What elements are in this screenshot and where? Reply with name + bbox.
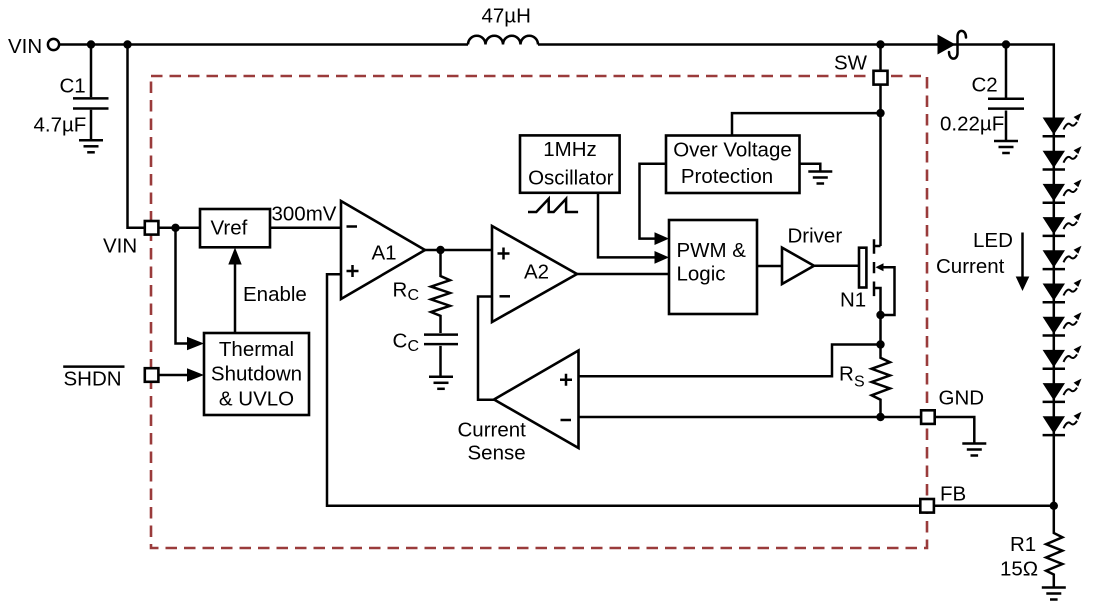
- block Over Voltage Protection: [666, 136, 800, 194]
- svg-text:1MHz: 1MHz: [543, 138, 597, 161]
- svg-text:Current: Current: [936, 255, 1005, 278]
- wire oscillator to PWM with arrow: [598, 193, 656, 258]
- op-amp A2: [492, 226, 577, 322]
- capacitor CC: [393, 330, 459, 376]
- resistor RC: [393, 250, 451, 333]
- pin FB: [920, 499, 934, 513]
- wire A2 output to PWM: [577, 273, 669, 276]
- svg-text:Enable: Enable: [243, 283, 307, 306]
- svg-text:Protection: Protection: [681, 165, 773, 188]
- wire A1 out to A2 + input: [425, 249, 492, 252]
- svg-text:FB: FB: [940, 483, 966, 506]
- svg-text:S: S: [854, 374, 865, 391]
- wire FB feedback to A1 + input: [327, 274, 920, 506]
- wire down to thermal shutdown with arrow: [176, 228, 188, 344]
- resistor R1: [1000, 506, 1062, 587]
- VIN terminal circle: [48, 39, 59, 50]
- wire current sense + input to RS top: [579, 345, 881, 377]
- wire Vref to A1 inverting input: [270, 227, 341, 230]
- diode D1 (Schottky rectifier): [938, 31, 967, 59]
- wire FB to LED string bottom: [934, 505, 1054, 508]
- ground (GND pin): [962, 444, 986, 456]
- wire OVP to SW node: [732, 113, 881, 135]
- pin GND: [921, 410, 935, 424]
- junction (RS top / current sense tap): [876, 340, 884, 348]
- LED D8: [1043, 345, 1082, 368]
- svg-text:SW: SW: [834, 52, 868, 75]
- junction (OVP tap on SW line): [876, 109, 884, 117]
- LED D6: [1043, 279, 1082, 302]
- svg-text:& UVLO: & UVLO: [219, 387, 294, 410]
- wire inductor to SW corner and down to LED string: [538, 45, 1054, 118]
- wire SW vertical (drain): [879, 45, 882, 247]
- driver buffer: [782, 225, 842, 285]
- junction (C1 tap): [87, 40, 95, 48]
- capacitor C1: [34, 45, 109, 140]
- svg-text:C1: C1: [60, 74, 86, 97]
- capacitor C2: [940, 45, 1024, 141]
- LED D4: [1043, 213, 1082, 236]
- svg-text:Driver: Driver: [788, 225, 843, 248]
- ground (R1): [1042, 588, 1066, 600]
- svg-text:Logic: Logic: [677, 262, 726, 285]
- svg-text:C: C: [408, 338, 420, 355]
- pin SHDN: [145, 368, 159, 382]
- wire PWM to driver: [757, 265, 782, 268]
- pin VIN: [145, 221, 159, 235]
- LED D10: [1043, 412, 1082, 435]
- ground (OVP): [808, 172, 832, 184]
- pin SW: [874, 71, 888, 85]
- svg-text:300mV: 300mV: [272, 203, 337, 226]
- op-amp A1: [341, 201, 425, 299]
- svg-text:N1: N1: [840, 289, 866, 312]
- svg-text:Shutdown: Shutdown: [211, 363, 302, 386]
- IC boundary dashed box: [151, 76, 927, 548]
- svg-text:SHDN: SHDN: [64, 367, 122, 390]
- wire SHDN to thermal block with arrow: [158, 374, 187, 377]
- wire current sense - input / GND line: [579, 416, 922, 419]
- svg-text:Current: Current: [458, 418, 527, 441]
- label SHDN with overline: [63, 367, 124, 391]
- svg-text:Sense: Sense: [468, 442, 526, 465]
- junction (FB / R1 node): [1050, 502, 1058, 510]
- op-amp Current Sense: [458, 351, 579, 465]
- wire VIN pin branch: [128, 45, 146, 228]
- wire OVP to PWM with arrow: [640, 164, 667, 239]
- LED D3: [1043, 179, 1082, 202]
- svg-text:Over Voltage: Over Voltage: [673, 138, 792, 161]
- LED D7: [1043, 312, 1082, 335]
- sawtooth waveform: [528, 199, 578, 212]
- svg-text:C2: C2: [972, 74, 998, 97]
- Enable arrow: [228, 248, 307, 334]
- label LED Current with arrow: [936, 229, 1029, 291]
- junction (Vref/thermal tap): [171, 224, 179, 232]
- svg-text:VIN: VIN: [8, 35, 42, 58]
- junction (VIN pin tap): [123, 40, 131, 48]
- resistor RS: [839, 345, 890, 418]
- svg-text:PWM &: PWM &: [677, 239, 747, 262]
- junction (compensation tap): [436, 246, 444, 254]
- wire pin to Vref: [158, 227, 200, 230]
- svg-text:R1: R1: [1010, 533, 1036, 556]
- svg-text:47µH: 47µH: [482, 5, 531, 28]
- svg-text:4.7µF: 4.7µF: [34, 114, 87, 137]
- transistor N1 (NMOS): [840, 239, 895, 344]
- ground (C1): [79, 140, 103, 152]
- junction (RS bottom / GND line): [876, 413, 884, 421]
- wire OVP to ground: [800, 164, 821, 171]
- ground (C2): [994, 141, 1018, 153]
- svg-text:LED: LED: [973, 229, 1013, 252]
- wire GND pin to ground: [935, 417, 975, 443]
- block 1MHz Oscillator: [520, 135, 620, 192]
- svg-text:A2: A2: [524, 261, 549, 284]
- LED D9: [1043, 379, 1082, 402]
- svg-text:0.22µF: 0.22µF: [940, 113, 1004, 136]
- svg-text:GND: GND: [939, 387, 985, 410]
- block Vref: [200, 209, 270, 247]
- svg-text:Thermal: Thermal: [219, 338, 294, 361]
- LED D2: [1043, 146, 1082, 169]
- wire LED string column: [1053, 118, 1056, 506]
- svg-text:C: C: [408, 287, 420, 304]
- inductor 47µH: [468, 5, 538, 45]
- block PWM & Logic: [669, 220, 757, 314]
- junction (SW node): [876, 40, 884, 48]
- block Thermal Shutdown & UVLO: [204, 333, 309, 415]
- svg-text:Oscillator: Oscillator: [528, 166, 614, 189]
- svg-text:R: R: [839, 363, 854, 386]
- svg-text:R: R: [393, 279, 408, 302]
- LED D5: [1043, 246, 1082, 269]
- wire top rail VIN to inductor: [60, 43, 469, 46]
- svg-text:VIN: VIN: [103, 235, 137, 258]
- svg-text:Vref: Vref: [211, 217, 248, 240]
- svg-text:C: C: [393, 330, 408, 353]
- wire driver to gate: [814, 265, 859, 268]
- LED D1: [1043, 113, 1082, 136]
- svg-text:15Ω: 15Ω: [1000, 558, 1038, 581]
- junction (C2 tap): [1002, 40, 1010, 48]
- ground (CC): [429, 377, 453, 389]
- svg-text:A1: A1: [372, 242, 397, 265]
- wire current sense to A2 - input: [478, 297, 494, 400]
